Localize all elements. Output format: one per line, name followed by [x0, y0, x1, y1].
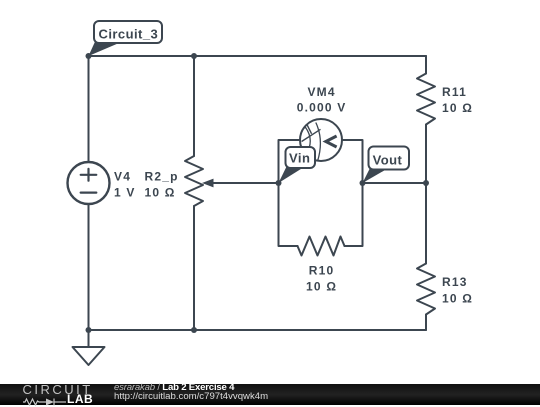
svg-text:1 V: 1 V [114, 185, 136, 199]
svg-text:10 Ω: 10 Ω [442, 101, 473, 115]
svg-text:10 Ω: 10 Ω [306, 280, 337, 294]
svg-text:0.000 V: 0.000 V [297, 101, 347, 115]
svg-text:Vout: Vout [373, 152, 403, 167]
svg-text:R13: R13 [442, 275, 468, 289]
svg-text:Vin: Vin [289, 151, 310, 166]
svg-text:VM4: VM4 [307, 85, 335, 99]
svg-text:R11: R11 [442, 85, 467, 99]
svg-text:10 Ω: 10 Ω [442, 292, 473, 306]
svg-text:R2_p: R2_p [145, 169, 179, 183]
svg-text:V4: V4 [114, 169, 131, 183]
svg-text:R10: R10 [309, 264, 335, 278]
svg-text:10 Ω: 10 Ω [145, 185, 176, 199]
svg-text:Circuit_3: Circuit_3 [99, 26, 159, 41]
